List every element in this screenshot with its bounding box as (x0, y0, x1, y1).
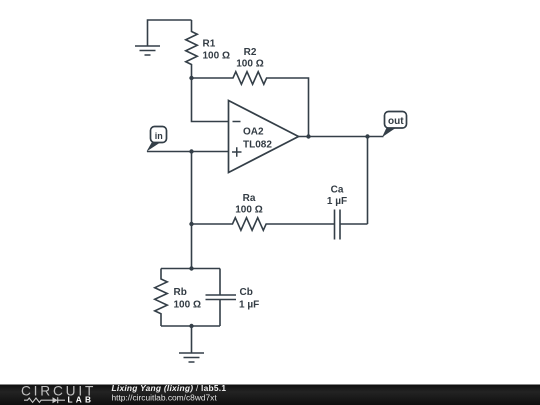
svg-text:100 Ω: 100 Ω (174, 300, 201, 311)
svg-text:Ra: Ra (243, 193, 256, 204)
svg-text:out: out (388, 116, 404, 127)
svg-text:Ca: Ca (331, 185, 344, 196)
svg-text:1 µF: 1 µF (239, 300, 259, 311)
svg-text:Rb: Rb (174, 287, 187, 298)
svg-text:R2: R2 (244, 47, 257, 58)
svg-text:1 µF: 1 µF (327, 196, 347, 207)
svg-text:in: in (155, 131, 163, 141)
svg-text:R1: R1 (203, 39, 216, 50)
svg-text:http://circuitlab.com/c8wd7xt: http://circuitlab.com/c8wd7xt (112, 392, 218, 402)
svg-text:LAB: LAB (68, 395, 95, 405)
svg-text:OA2: OA2 (243, 127, 264, 138)
svg-text:100 Ω: 100 Ω (236, 59, 263, 70)
svg-text:Cb: Cb (240, 287, 253, 298)
svg-text:TL082: TL082 (243, 140, 272, 151)
svg-text:100 Ω: 100 Ω (203, 51, 230, 62)
svg-text:100 Ω: 100 Ω (235, 205, 262, 216)
